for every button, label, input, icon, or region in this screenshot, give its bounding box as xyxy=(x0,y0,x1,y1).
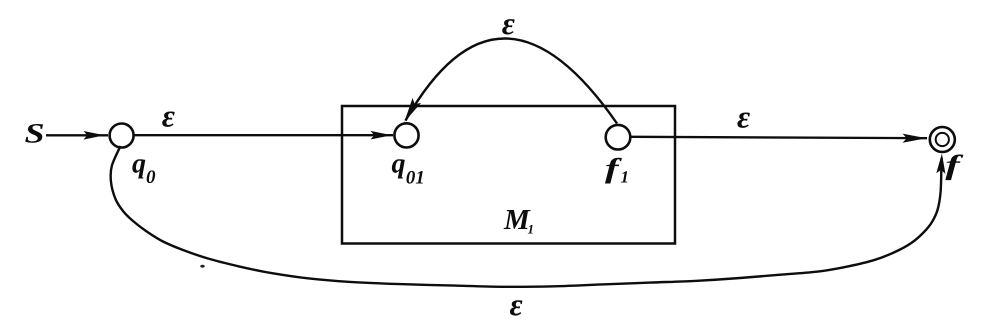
final state f outer circle xyxy=(930,127,955,152)
label M1 xyxy=(504,210,531,229)
box M1 xyxy=(342,106,675,244)
epsilon label on bottom loop xyxy=(510,300,523,315)
epsilon label on top arc xyxy=(502,19,515,34)
epsilon label on wire f1 to f xyxy=(737,113,750,128)
wire f1 to f xyxy=(631,137,928,138)
epsilon bottom loop wire from q0 to f xyxy=(111,146,942,287)
final state f inner circle xyxy=(936,133,949,146)
label q01 xyxy=(392,159,405,178)
wire S to q0 xyxy=(46,134,108,136)
arrowhead into q0 xyxy=(84,131,105,140)
label f xyxy=(945,154,963,180)
node S label xyxy=(25,124,43,143)
ink speck xyxy=(200,265,204,268)
arrowhead into f xyxy=(903,134,927,143)
arrowhead of loop into f xyxy=(936,154,945,174)
arrowhead into q01 xyxy=(371,131,392,140)
label q0 xyxy=(132,159,145,178)
wire q0 to q01 xyxy=(134,134,394,136)
state q0 xyxy=(110,124,134,148)
arrowhead of arc into q01 xyxy=(404,98,421,122)
epsilon arc from f1 to q01 xyxy=(406,38,618,123)
state f1 xyxy=(606,125,631,150)
epsilon label on wire q0 to q01 xyxy=(162,112,175,127)
state q01 xyxy=(394,123,418,147)
label f1 xyxy=(605,158,622,184)
